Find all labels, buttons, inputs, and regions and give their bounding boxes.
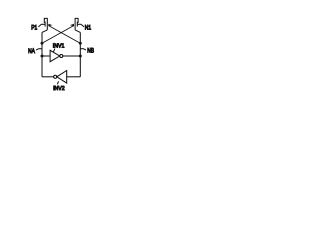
- svg-text:INV2: INV2: [53, 86, 65, 92]
- svg-text:P1: P1: [31, 25, 37, 32]
- wire N1 bottom lead to NB column: [75, 30, 80, 33]
- label N1 leader: [81, 24, 84, 27]
- wire P1 to node NB (diagonal): [48, 26, 80, 44]
- junction dot NB / INV1 output: [79, 55, 82, 58]
- transistor P1: [41, 18, 47, 30]
- wire P1 bottom lead to NA column: [42, 30, 47, 33]
- inverter INV2: [42, 71, 80, 84]
- svg-text:NA: NA: [28, 48, 35, 55]
- svg-text:INV1: INV1: [53, 43, 65, 49]
- junction dot node NB / diagonal: [79, 42, 82, 45]
- label P1 leader: [38, 24, 41, 27]
- inverter INV1: [42, 50, 80, 61]
- leader line NA: [36, 49, 42, 50]
- source arrow of P1: [48, 24, 52, 27]
- label INV2 leader: [57, 81, 58, 84]
- leader line NB: [81, 49, 87, 50]
- svg-text:NB: NB: [87, 48, 94, 55]
- svg-text:N1: N1: [85, 25, 91, 32]
- junction dot node NA / diagonal: [41, 42, 44, 45]
- wire node NB column: [79, 32, 81, 76]
- source arrow of N1: [70, 24, 74, 27]
- label INV1 leader: [53, 49, 55, 53]
- wire node NA column: [41, 32, 43, 76]
- junction dot NA / INV1 input: [41, 55, 44, 58]
- wire N1 to node NA (diagonal): [42, 26, 74, 44]
- transistor N1: [75, 18, 81, 30]
